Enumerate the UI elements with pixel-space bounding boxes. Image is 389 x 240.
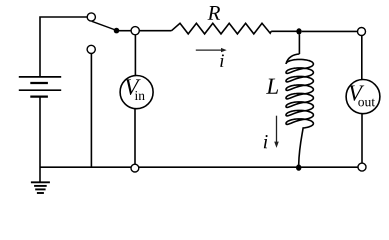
switch S1 hinge dot bbox=[114, 28, 120, 34]
label Vout subscript bbox=[358, 99, 375, 107]
wire terminal down to Vout bbox=[361, 36, 363, 80]
bottom bus wire bbox=[40, 166, 358, 168]
wire hinge to pole bbox=[117, 30, 132, 32]
wire contact 2 down to bus bbox=[90, 54, 92, 168]
label i (top current) bbox=[220, 54, 224, 67]
wire pole down to Vin bbox=[134, 35, 136, 76]
bottom Vin terminal on bus bbox=[131, 164, 139, 172]
label L bbox=[266, 79, 278, 94]
ground bbox=[31, 182, 50, 193]
switch S1 contact 1 bbox=[87, 13, 95, 21]
inductor L coil bbox=[286, 54, 313, 165]
wire resistor to node A bbox=[271, 30, 299, 32]
label Vin subscript bbox=[135, 91, 145, 100]
node A junction dot bbox=[296, 28, 301, 34]
label Vout V bbox=[349, 85, 364, 100]
bottom right terminal bbox=[358, 163, 366, 171]
wire node A to top right terminal bbox=[302, 30, 358, 32]
label i (inductor current) bbox=[264, 135, 268, 148]
current arrow i (top) bbox=[196, 48, 227, 52]
Vin source circle bbox=[120, 76, 153, 109]
wire battery bottom to ground bbox=[39, 97, 41, 183]
wire Vout to bottom right terminal bbox=[361, 114, 363, 164]
top right terminal bbox=[358, 28, 366, 36]
wire battery top to switch contact 1 bbox=[40, 17, 87, 77]
Vout meter circle bbox=[346, 80, 380, 114]
resistor R zigzag bbox=[172, 23, 272, 34]
switch S1 lever bbox=[92, 21, 117, 30]
wire node A down to inductor bbox=[298, 34, 300, 54]
label R bbox=[207, 6, 220, 20]
wire pole to resistor bbox=[139, 30, 171, 32]
label Vin V bbox=[125, 79, 140, 95]
battery V1 (DC source) bbox=[19, 77, 61, 97]
switch S1 pole terminal bbox=[131, 27, 139, 35]
wire Vin down to bus terminal bbox=[134, 109, 136, 165]
current arrow i (inductor) bbox=[274, 116, 279, 148]
inductor bottom junction dot on bus bbox=[296, 164, 301, 170]
switch S1 contact 2 bbox=[87, 45, 95, 53]
